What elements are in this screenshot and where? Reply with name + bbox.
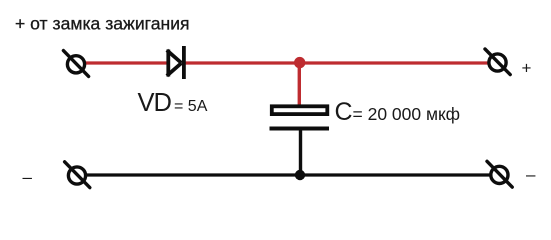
svg-text:–: – — [23, 168, 33, 187]
svg-text:–: – — [526, 165, 536, 184]
svg-text:+: + — [522, 59, 532, 78]
svg-text:+ от замка зажигания: + от замка зажигания — [15, 14, 190, 34]
svg-text:C: C — [335, 98, 353, 126]
svg-text:= 20 000 мкф: = 20 000 мкф — [353, 104, 461, 124]
svg-text:VD: VD — [138, 89, 172, 117]
svg-text:= 5A: = 5A — [174, 98, 208, 115]
